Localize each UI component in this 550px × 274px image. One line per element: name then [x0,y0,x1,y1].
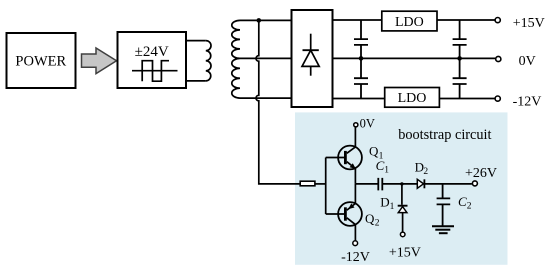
terminal +26V [472,181,477,186]
capacitor C2 [437,184,451,226]
svg-text:1: 1 [390,202,395,212]
wire: tap from secondary top down to bootstrap (with crossover hops) [256,20,300,184]
terminal -12V [495,96,500,101]
svg-text:-12V: -12V [341,250,370,265]
svg-text:2: 2 [423,167,428,177]
svg-text:LDO: LDO [395,15,424,30]
wire: +rail from LDO1 to +15V terminal [437,19,495,21]
svg-text:+26V: +26V [465,166,497,181]
wire: common base rail [325,158,327,215]
wire: branch down to D1 [401,184,403,205]
svg-text:Q: Q [369,144,379,159]
terminal 0V [496,56,501,61]
wire: -rail from rectifier to LDO2 [333,98,385,100]
svg-text:bootstrap circuit: bootstrap circuit [398,127,491,143]
terminal +15V (bootstrap) [400,232,405,237]
svg-text:-12V: -12V [513,94,542,109]
svg-text:D: D [380,194,389,209]
block arrow [82,48,117,74]
terminal -12V (bootstrap) [353,241,358,246]
filter capacitor (input, +rail to 0V) [354,20,368,58]
wire: D2 to +26V terminal [424,183,472,185]
wire: resistor to base rail [315,183,326,185]
filter capacitor (output, 0V to -rail) [453,58,467,98]
svg-text:LDO: LDO [398,91,427,106]
LDO U1 (+15V regulator) [382,11,437,31]
svg-text:Q: Q [365,211,375,226]
filter capacitor (input, 0V to -rail) [354,58,368,98]
wire: -rail from LDO2 to -12V terminal [439,98,494,100]
node: secondary top junction dot [257,18,262,23]
capacitor C1 [378,178,382,191]
transistor Q1 (NPN) [326,127,362,184]
node: D1 branch junction [400,182,403,185]
wire: emitter node to C1 [355,183,377,185]
wire: C1 to D2 [383,183,417,185]
node: input caps 0V junction [359,56,364,61]
svg-text:0V: 0V [360,117,375,131]
rectifier box with diode [292,10,333,107]
svg-text:+15V: +15V [389,246,421,261]
svg-text:1: 1 [384,166,389,176]
svg-text:C: C [458,194,467,209]
bootstrap circuit shaded region [295,112,508,264]
diode D1 [398,206,408,232]
terminal 0V (bootstrap) [354,123,358,127]
transformer T1 secondary winding with center tap [232,20,292,98]
square wave symbol [132,61,178,81]
transistor Q2 (PNP) [326,184,362,241]
svg-text:0V: 0V [519,54,536,69]
svg-text:C: C [376,158,385,173]
ground [432,226,454,233]
node: output caps 0V junction [457,56,462,61]
transformer T1 primary winding [186,41,211,81]
LDO U2 (-12V regulator) [385,88,440,108]
svg-text:+15V: +15V [513,16,545,31]
svg-text:POWER: POWER [15,54,66,70]
filter capacitor (output, +rail to 0V) [453,20,467,58]
wire: 0V rail [333,57,496,59]
svg-text:2: 2 [467,202,472,212]
terminal +15V [495,18,500,23]
svg-text:2: 2 [375,219,380,229]
wire: +rail from rectifier to LDO1 [333,19,382,21]
inverter box with ±24V square wave [118,32,187,88]
svg-text:±24V: ±24V [135,44,169,60]
POWER box [7,33,76,88]
diode D2 [417,179,424,188]
resistor (base drive) [300,181,315,186]
